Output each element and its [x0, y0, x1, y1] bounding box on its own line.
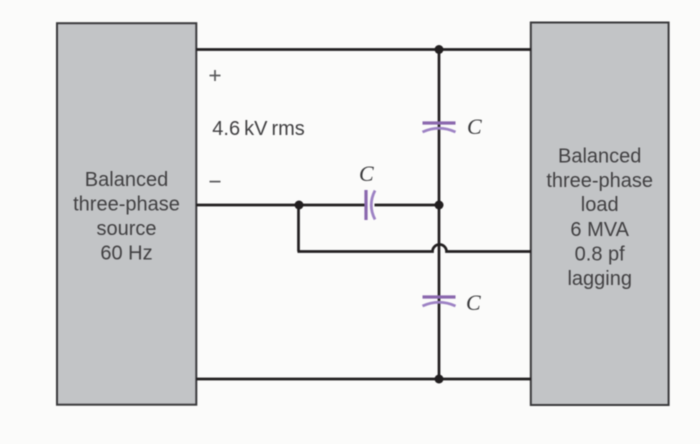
svg-text:three-phase: three-phase	[546, 170, 653, 192]
svg-text:Balanced: Balanced	[558, 146, 641, 168]
svg-text:0.8 pf: 0.8 pf	[575, 244, 625, 266]
svg-text:60 Hz: 60 Hz	[100, 242, 152, 264]
svg-text:lagging: lagging	[567, 268, 632, 290]
svg-text:C: C	[359, 161, 374, 186]
svg-text:load: load	[581, 194, 619, 216]
svg-text:source: source	[96, 218, 156, 240]
svg-text:three-phase: three-phase	[73, 194, 180, 216]
svg-text:C: C	[467, 114, 482, 139]
svg-text:6 MVA: 6 MVA	[570, 219, 629, 241]
svg-text:C: C	[466, 290, 481, 315]
svg-text:Balanced: Balanced	[85, 169, 168, 191]
svg-text:4.6 kV rms: 4.6 kV rms	[212, 118, 304, 140]
